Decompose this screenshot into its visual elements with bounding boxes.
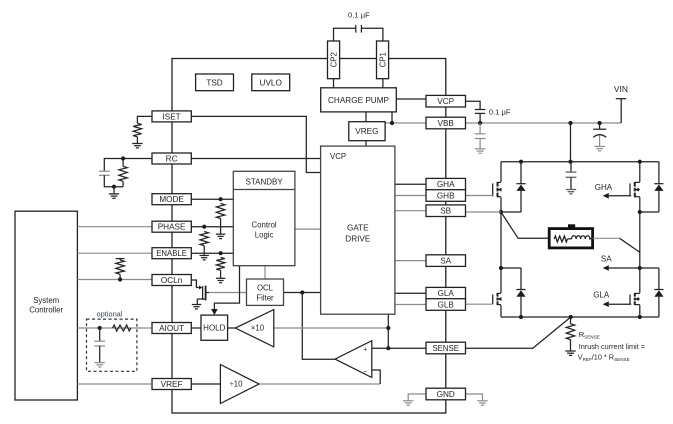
svg-text:RC: RC: [166, 154, 178, 163]
wire motor inductor tail: [589, 238, 591, 240]
ground Rsense: [565, 351, 575, 355]
svg-text:0.1 µF: 0.1 µF: [489, 107, 511, 116]
wire OCLn to Q1 gate: [191, 280, 199, 288]
svg-text:VREG: VREG: [355, 127, 378, 136]
svg-text:GND: GND: [437, 390, 455, 399]
wire bridge top rail: [501, 161, 659, 163]
capacitor C-VBB bypass: [475, 134, 486, 139]
svg-text:CP2: CP2: [330, 52, 339, 67]
ground RC network: [109, 194, 119, 198]
node AIOUT filter junction: [98, 326, 102, 330]
wire gate drive to GLA: [395, 292, 426, 294]
wire C-VBB top: [479, 123, 481, 134]
motor internal resistance: [554, 236, 567, 242]
wire C-VCP to VBB net: [479, 113, 481, 123]
svg-text:HOLD: HOLD: [203, 324, 225, 333]
wire C-VIN bottom: [599, 136, 601, 147]
transistor Q2 high-side left: [493, 182, 502, 197]
wire ISET to resistor: [137, 116, 152, 123]
svg-text:GHA: GHA: [437, 180, 455, 189]
svg-text:System: System: [33, 296, 59, 305]
wire PHASE to control logic: [191, 226, 233, 228]
wire R-PHASE to ground: [203, 246, 205, 256]
wire C-RC bottom: [104, 175, 123, 186]
wire control logic to OCL filter: [264, 266, 266, 279]
pin SENSE: [426, 342, 466, 354]
wire comparator out to OCL net: [302, 293, 335, 360]
node x10 input junction: [386, 326, 390, 330]
wire AIOUT to HOLD: [191, 327, 201, 329]
pin GND: [426, 388, 466, 400]
svg-text:SA: SA: [440, 257, 451, 266]
optional dashed box: [87, 319, 137, 371]
wire D3 cathode up: [520, 268, 522, 290]
ground Q1 source: [192, 305, 201, 309]
wire SC to ENABLE: [77, 252, 152, 254]
wire CP2 bottom to charge pump: [333, 79, 335, 88]
IC boundary outline U1: [172, 59, 446, 414]
svg-text:SA: SA: [601, 255, 612, 264]
wire C-VIN top: [599, 123, 601, 129]
svg-text:SB: SB: [440, 207, 451, 216]
wire Q4 drain: [500, 268, 502, 293]
pin PHASE: [152, 221, 191, 232]
pin VREF: [152, 379, 191, 390]
wire gate drive to GHB: [395, 195, 426, 197]
diode D1 upper left: [516, 184, 525, 191]
svg-text:Logic: Logic: [255, 230, 274, 239]
wire motor right lead: [593, 237, 620, 239]
wire comparator minus notch: [372, 370, 380, 384]
wire D1 cathode to rail: [520, 162, 522, 184]
node bottom rail sense: [569, 315, 573, 319]
svg-text:TSD: TSD: [206, 78, 222, 87]
wire right midpoint down: [639, 212, 641, 268]
wire VBB to bridge rail: [570, 123, 572, 162]
svg-text:STANDBY: STANDBY: [245, 177, 283, 186]
wire R-MODE to ground: [220, 219, 222, 235]
svg-text:VCP: VCP: [330, 152, 346, 161]
wire R-RC bottom: [122, 181, 124, 186]
capacitor C-VCP 0.1uF: [475, 110, 485, 114]
wire GND right stem: [466, 394, 483, 401]
capacitor C-AIOUT: [94, 341, 105, 346]
node VREG VBB junction: [390, 121, 394, 125]
node VBB to bridge junction: [568, 121, 572, 125]
capacitor C-RC: [99, 171, 110, 175]
node C-VCP VBB junction: [478, 121, 482, 125]
wire gate drive to SA: [395, 260, 426, 262]
svg-text:VREF/10 * RSENSE: VREF/10 * RSENSE: [578, 353, 630, 363]
wire VREG to gate drive: [365, 141, 367, 146]
svg-text:GLB: GLB: [438, 300, 455, 309]
wire Q2 source to midpoint: [500, 197, 502, 212]
wire GHB gate lead: [466, 195, 493, 197]
ground GND left: [403, 401, 413, 405]
arrow GHA: [603, 193, 609, 199]
arrow SA: [603, 265, 609, 271]
node C-VIN junction: [598, 121, 602, 125]
wire comparator plus stub: [372, 347, 389, 349]
wire VREF to div10: [191, 383, 220, 385]
pin GHA: [426, 178, 466, 190]
svg-text:GATE: GATE: [347, 224, 369, 233]
wire motor internal link: [568, 238, 572, 240]
wire gate drive to GHA: [395, 183, 426, 185]
svg-text:GHB: GHB: [437, 191, 455, 200]
wire gate drive to GLB: [395, 304, 426, 306]
svg-text:+: +: [363, 347, 367, 354]
svg-text:SENSE: SENSE: [432, 344, 458, 353]
block CHARGE PUMP: [321, 88, 397, 112]
pin GLB: [426, 299, 466, 311]
wire sense tap diagonal: [466, 317, 571, 348]
motor internal inductance: [572, 236, 590, 239]
block Control Logic with STANDBY: [233, 171, 295, 265]
op-amp A2 comparator: [335, 341, 372, 378]
svg-text:PHASE: PHASE: [158, 223, 186, 232]
ground C-bridge: [566, 190, 576, 194]
svg-text:VBB: VBB: [438, 119, 455, 128]
wire control logic to HOLD: [214, 266, 239, 310]
resistor R-AIOUT filter: [113, 325, 131, 331]
wire gate drive to sense net: [387, 314, 389, 348]
wire D4 cathode up: [658, 268, 660, 290]
node ENABLE pulldown tap: [219, 251, 223, 255]
svg-text:Controller: Controller: [29, 306, 63, 315]
wire CP2 top to flying cap: [334, 28, 356, 41]
node OCL output junction: [300, 290, 304, 294]
pin VCP: [426, 95, 466, 107]
resistor R-ENABLE pulldown: [216, 257, 224, 270]
node top rail supply: [568, 160, 572, 164]
wire ENABLE to control logic: [191, 252, 233, 254]
pin ENABLE: [152, 248, 191, 259]
wire D3 anode to rail: [520, 297, 522, 317]
wire GND left stem: [408, 394, 426, 401]
wire Q1 drain to OCL filter: [209, 292, 247, 294]
node RC top junction: [121, 156, 125, 160]
svg-text:−: −: [363, 368, 367, 375]
ground R-ISET: [132, 144, 142, 148]
wire R-RC top: [122, 159, 124, 167]
transistor Q3 high-side right: [630, 182, 640, 197]
pin MODE: [152, 194, 191, 205]
op-amp A3 div10: [220, 365, 259, 404]
svg-text:GLA: GLA: [438, 289, 455, 298]
svg-text:optional: optional: [97, 310, 123, 319]
resistor R-ISET: [133, 123, 141, 137]
pin SA: [426, 255, 466, 267]
wire RC to gate drive: [191, 158, 320, 160]
transistor Q4 low-side left: [493, 293, 502, 305]
wire RC pin left: [104, 159, 152, 172]
pin ISET: [152, 111, 191, 122]
wire GLA arrow lead: [609, 303, 630, 305]
wire Q3 drain: [639, 162, 641, 182]
motor M1 load: [549, 224, 592, 248]
svg-text:VIN: VIN: [614, 84, 628, 94]
node MODE pulldown tap: [219, 197, 223, 201]
wire ISET to gate drive: [191, 116, 320, 172]
svg-text:GLA: GLA: [593, 291, 610, 300]
node right lower branch SA: [638, 266, 642, 270]
node OCLn pull junction: [118, 277, 122, 281]
wire bridge bottom rail: [501, 316, 659, 318]
wire CP1 bottom to charge pump: [382, 79, 384, 88]
capacitor C-VIN bulk: [593, 129, 606, 137]
wire right midpoint to D2: [640, 211, 659, 213]
node top rail diode1: [519, 160, 523, 164]
ground GND right: [477, 401, 487, 405]
wire SA arrow lead: [609, 267, 640, 269]
svg-text:Control: Control: [252, 220, 277, 229]
block HOLD: [201, 315, 228, 340]
wire SC to AIOUT: [77, 327, 152, 329]
node RC bottom junction: [112, 185, 116, 189]
pin CP1: [377, 41, 389, 79]
svg-text:DRIVE: DRIVE: [345, 235, 371, 244]
resistor R-PHASE pulldown: [200, 232, 208, 246]
wire OCL filter output: [284, 292, 321, 294]
transistor Q1 OCL pulldown: [197, 286, 209, 305]
svg-text:VCP: VCP: [437, 97, 454, 106]
wire Q4 source to rail: [500, 305, 502, 317]
wire flying cap to CP1 top: [361, 28, 383, 41]
node bottom rail Q5: [638, 315, 642, 319]
resistor R-RC: [119, 166, 127, 181]
svg-text:÷10: ÷10: [230, 380, 244, 389]
resistor Rsense: [566, 324, 574, 340]
pin GHB: [426, 190, 466, 202]
wire x10 input line: [274, 327, 389, 329]
svg-text:Inrush current limit =: Inrush current limit =: [579, 342, 645, 351]
wire motor right diagonal: [620, 238, 640, 252]
ground R-MODE: [216, 234, 225, 238]
wire D2 cathode to rail: [658, 162, 660, 184]
wire gate drive to SB: [395, 210, 426, 212]
block System Controller: [15, 211, 77, 400]
wire lower branch to D3: [501, 267, 521, 269]
svg-text:Filter: Filter: [256, 293, 274, 302]
wire SC to PHASE: [77, 226, 152, 228]
wire charge pump bottom to VBB net: [391, 112, 393, 123]
resistor R-MODE pulldown: [216, 204, 224, 219]
node top rail Q2: [638, 160, 642, 164]
svg-text:AIOUT: AIOUT: [159, 324, 184, 333]
wire SC to OCLn: [77, 279, 152, 281]
wire D4 anode to rail: [658, 297, 660, 317]
pin OCLn: [152, 275, 191, 286]
resistor R-OCL pull: [116, 260, 124, 274]
wire C-AIOUT top: [99, 328, 101, 341]
wire C-AIOUT bottom: [99, 346, 101, 362]
block VREG: [349, 122, 385, 141]
block TSD: [196, 74, 234, 91]
wire R-ISET to ground: [136, 137, 138, 144]
wire VCP to C-VCP: [466, 101, 481, 109]
pin VBB: [426, 117, 466, 129]
arrow into HOLD: [211, 309, 218, 315]
wire x10 out to HOLD: [228, 327, 236, 329]
block OCL Filter: [247, 279, 284, 305]
wire C-bridge top: [570, 162, 572, 172]
wire Q2 drain: [500, 162, 502, 182]
node PHASE pulldown tap: [202, 225, 206, 229]
ground C-AIOUT: [95, 363, 105, 367]
node left lower branch: [499, 266, 503, 270]
wire charge pump to VCP pin: [396, 98, 426, 100]
svg-text:CHARGE PUMP: CHARGE PUMP: [328, 96, 389, 105]
wire C-VBB bottom: [479, 139, 481, 149]
wire left midpoint down: [500, 212, 502, 268]
block UVLO: [252, 74, 290, 91]
pin SB: [426, 205, 466, 217]
pin AIOUT: [152, 323, 191, 334]
svg-text:ENABLE: ENABLE: [156, 249, 187, 258]
wire VBB rail: [466, 122, 622, 124]
pin CP2: [328, 41, 340, 79]
wire GHA arrow lead: [609, 195, 630, 197]
wire VREG to VBB: [385, 122, 426, 124]
ground R-PHASE: [200, 256, 209, 260]
transistor Q5 low-side right: [630, 293, 640, 305]
svg-text:GHA: GHA: [595, 183, 613, 192]
wire lower branch to D4: [640, 267, 659, 269]
wire R-ENABLE to ground: [220, 270, 222, 278]
svg-text:OCLn: OCLn: [161, 276, 183, 285]
wire midpoint to diode D1: [501, 211, 521, 213]
wire GLB gate lead: [466, 303, 493, 305]
rail tick R-OCL top: [116, 258, 125, 260]
wire D2 anode to midpoint: [658, 191, 660, 212]
op-amp A1 x10: [235, 310, 273, 347]
block GATE DRIVE: [321, 146, 395, 314]
wire R-OCL to OCLn net: [119, 274, 121, 279]
terminal VIN: [616, 99, 627, 123]
ground C-VIN: [594, 146, 604, 150]
gate arrow Q1: [199, 286, 202, 290]
svg-text:RSENSE: RSENSE: [579, 330, 600, 340]
wire charge pump to VREG: [365, 112, 367, 122]
wire C-bridge bottom: [570, 177, 572, 189]
wire SC to VREF: [77, 383, 151, 385]
diode D2 upper right: [654, 184, 663, 191]
wire control logic to gate drive: [295, 228, 321, 230]
wire motor left diagonal: [501, 212, 549, 238]
wire sense net to SENSE pin: [388, 347, 426, 349]
svg-text:VREF: VREF: [161, 380, 183, 389]
wire MODE to control logic: [191, 198, 233, 200]
diode D4 lower right: [654, 290, 663, 297]
svg-text:UVLO: UVLO: [260, 78, 282, 87]
capacitor C-bridge bypass: [566, 172, 577, 177]
svg-text:MODE: MODE: [159, 195, 184, 204]
node right midpoint: [638, 210, 642, 214]
wire tick to R-OCL: [119, 259, 121, 260]
wire RC net to ground: [113, 187, 115, 194]
diode D3 lower left: [516, 290, 525, 297]
svg-text:OCL: OCL: [257, 283, 274, 292]
node bottom rail diode3: [519, 315, 523, 319]
pin GLA: [426, 287, 466, 299]
wire Rsense to ground: [570, 340, 572, 351]
wire Q3 source to midpoint: [639, 197, 641, 212]
ground R-ENABLE: [216, 278, 225, 282]
wire Q5 drain: [639, 268, 641, 293]
wire D1 anode to midpoint: [520, 191, 522, 212]
node comparator plus junction: [386, 346, 390, 350]
pin RC: [152, 153, 191, 164]
svg-text:CP1: CP1: [379, 52, 388, 67]
svg-text:ISET: ISET: [162, 112, 180, 121]
wire SB to bridge: [466, 211, 502, 213]
svg-text:0.1 µF: 0.1 µF: [348, 11, 370, 20]
wire Q5 source to rail: [639, 305, 641, 317]
ground C-VBB: [475, 149, 485, 153]
wire Rsense top: [570, 317, 572, 324]
node left midpoint SB: [499, 210, 503, 214]
wire div10 output: [259, 383, 380, 385]
svg-text:×10: ×10: [251, 324, 265, 333]
arrow GLA: [603, 301, 609, 307]
capacitor flying 0.1uF plates: [356, 25, 362, 33]
